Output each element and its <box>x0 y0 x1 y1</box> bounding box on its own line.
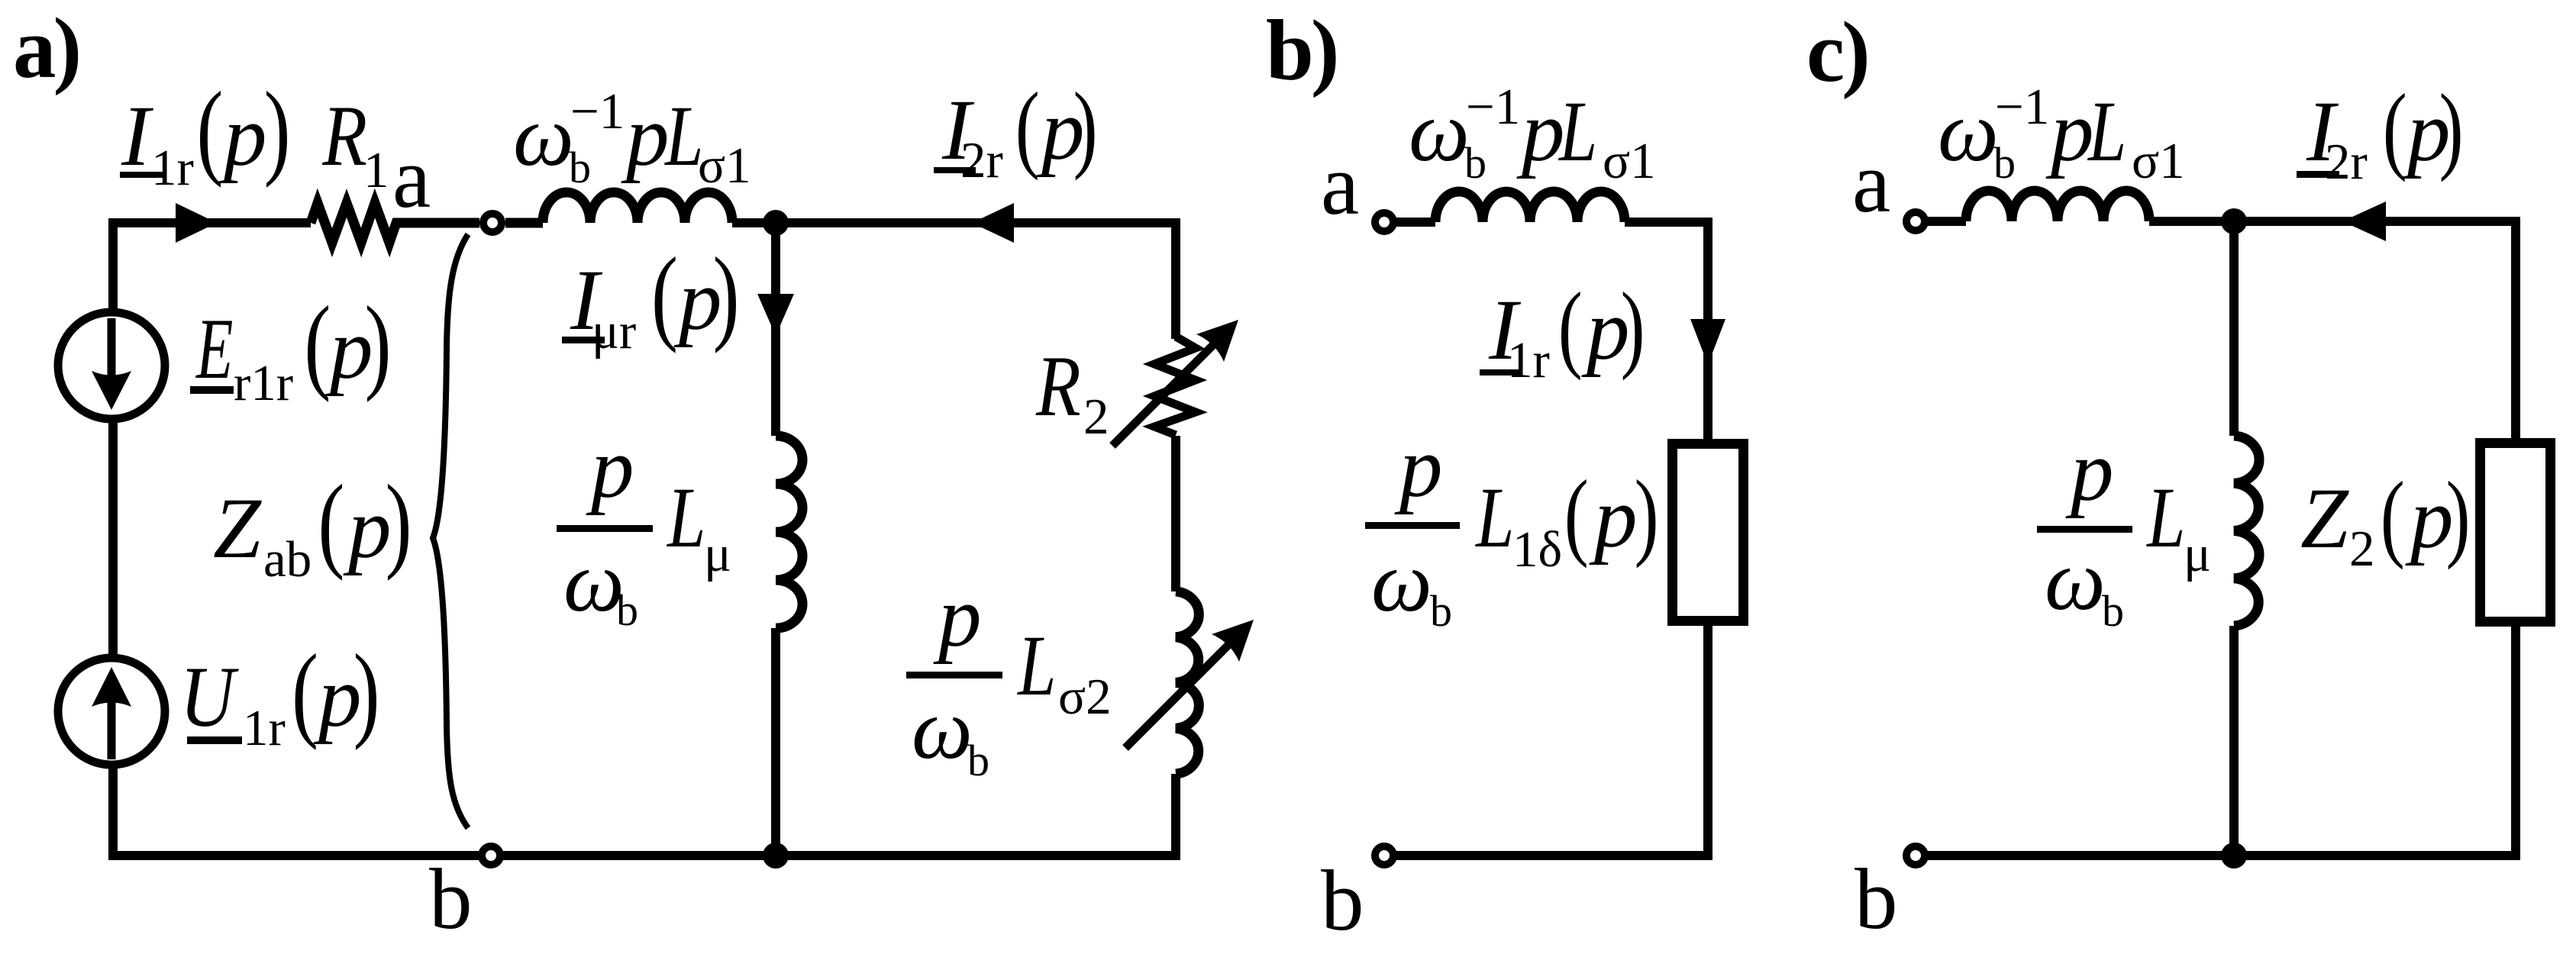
svg-text:): ) <box>353 633 380 751</box>
wire: fig c top to right corner and down <box>2149 221 2516 438</box>
junction dot (fig c top middle) <box>2221 208 2247 234</box>
resistor R1 zigzag <box>311 203 479 243</box>
svg-text:): ) <box>713 236 740 354</box>
junction dot (fig a top middle) <box>763 210 789 236</box>
svg-text:μ: μ <box>2184 526 2211 582</box>
svg-text:): ) <box>264 70 291 189</box>
svg-text:L: L <box>1474 471 1514 566</box>
wire: fig a middle branch lower <box>771 628 780 856</box>
svg-text:a: a <box>392 131 431 226</box>
svg-text:): ) <box>386 463 412 582</box>
node b terminal (fig c) <box>1906 846 1925 865</box>
current arrow I2r (fig a top-right wire, pointing left) <box>972 203 1014 243</box>
svg-text:L: L <box>1558 85 1597 180</box>
variable arrow through Lσ2 <box>1125 639 1235 748</box>
svg-text:1r: 1r <box>151 140 194 196</box>
svg-text:b: b <box>616 585 638 635</box>
svg-text:Z: Z <box>2300 471 2349 566</box>
svg-text:2r: 2r <box>2325 134 2368 190</box>
svg-text:1: 1 <box>363 142 389 198</box>
node a terminal (fig b) <box>1375 213 1393 231</box>
svg-text:ω: ω <box>912 682 973 777</box>
svg-text:b): b) <box>1266 3 1336 98</box>
svg-text:E: E <box>195 301 233 397</box>
svg-text:(: ( <box>2381 462 2405 570</box>
svg-text:2r: 2r <box>960 132 1003 189</box>
svg-text:(: ( <box>651 236 678 354</box>
current arrow Iμr (fig a middle branch, pointing down) <box>757 294 794 336</box>
svg-text:(: ( <box>1564 461 1589 569</box>
wire: fig a right branch bottom <box>1171 774 1180 856</box>
node b terminal (fig a, open circle) <box>482 846 500 865</box>
svg-text:p: p <box>1589 470 1638 566</box>
svg-text:r1r: r1r <box>234 355 293 411</box>
svg-text:(: ( <box>2383 75 2407 182</box>
svg-text:−1: −1 <box>570 83 625 140</box>
impedance box p/ωb L1δ(p) (fig b) <box>1673 444 1744 621</box>
inductor Lμ (fig a middle branch) <box>776 436 802 628</box>
wire: fig a bottom <box>108 851 1180 860</box>
variable arrow through R2 <box>1112 337 1222 446</box>
svg-text:b: b <box>429 852 473 947</box>
svg-text:1r: 1r <box>1507 332 1550 388</box>
wire: fig a top-right to corner <box>732 223 1176 339</box>
svg-text:): ) <box>2439 75 2464 182</box>
svg-text:c): c) <box>1806 5 1867 100</box>
svg-text:a): a) <box>13 1 79 96</box>
svg-text:μ: μ <box>704 526 731 582</box>
current arrow I2r (fig c, pointing left) <box>2342 201 2386 241</box>
svg-text:L: L <box>2087 85 2126 180</box>
node a terminal (fig c) <box>1906 212 1925 230</box>
svg-text:p: p <box>343 481 392 576</box>
svg-text:σ1: σ1 <box>2132 133 2185 189</box>
wire: fig a left vertical (behind sources) <box>108 218 118 860</box>
wire: fig a top-left segment <box>108 218 311 227</box>
wire: fig b from node a <box>1396 218 1435 227</box>
svg-text:(: ( <box>318 463 344 582</box>
svg-text:I: I <box>121 89 154 184</box>
svg-text:σ2: σ2 <box>1058 669 1112 725</box>
svg-text:ω: ω <box>1409 84 1470 179</box>
svg-text:a: a <box>1321 137 1359 233</box>
svg-text:b: b <box>2102 586 2124 636</box>
svg-text:): ) <box>365 285 392 403</box>
svg-text:1r: 1r <box>243 700 286 756</box>
svg-text:(: ( <box>292 633 318 751</box>
inductor Lσ1 (fig b) <box>1435 192 1625 222</box>
svg-text:R: R <box>321 89 367 184</box>
svg-text:ω: ω <box>513 89 574 184</box>
svg-text:L: L <box>1016 619 1056 714</box>
wire: fig c bottom <box>1928 851 2520 860</box>
inductor Lμ (fig c) <box>2234 436 2259 626</box>
svg-text:σ1: σ1 <box>1603 133 1656 189</box>
svg-text:L: L <box>2145 471 2185 566</box>
junction dot (fig a bottom middle) <box>763 843 789 869</box>
wire: fig b below box to bottom and back to node b <box>1396 626 1708 856</box>
svg-text:R: R <box>1035 339 1081 434</box>
wire: fig a middle branch upper <box>771 223 780 436</box>
wire: fig c right branch below box <box>2511 627 2520 860</box>
resistor R2 zigzag (variable) <box>1154 337 1196 435</box>
svg-text:b: b <box>1993 138 2016 188</box>
svg-text:−1: −1 <box>1466 79 1520 135</box>
svg-text:(: ( <box>196 70 223 189</box>
svg-text:): ) <box>2446 462 2471 570</box>
svg-text:(: ( <box>1015 73 1040 181</box>
svg-text:L: L <box>666 471 705 566</box>
node b terminal (fig b) <box>1375 846 1393 865</box>
wire: fig b top right and down to box <box>1625 222 1708 439</box>
current arrow I1r (fig a top-left wire) <box>176 203 217 243</box>
svg-text:p: p <box>2065 424 2114 519</box>
current arrow I1r (fig b, pointing down) <box>1690 319 1725 365</box>
svg-text:p: p <box>218 89 267 184</box>
svg-text:p: p <box>621 89 670 184</box>
wire: fig a right branch between R2 and Lσ2 <box>1171 436 1180 591</box>
voltage source U_1r (fig a, arrow up) <box>58 658 165 765</box>
svg-text:U: U <box>180 649 240 745</box>
svg-text:p: p <box>1516 84 1565 179</box>
wire: fig c middle branch lower <box>2229 626 2239 856</box>
junction dot (fig c bottom middle) <box>2221 843 2247 869</box>
svg-text:b: b <box>1321 853 1364 949</box>
node a terminal (fig a, open circle) <box>483 214 502 232</box>
svg-text:b: b <box>1855 852 1898 947</box>
svg-text:−1: −1 <box>1995 79 2049 135</box>
svg-text:b: b <box>1464 138 1487 188</box>
svg-text:μr: μr <box>592 303 636 359</box>
svg-text:a: a <box>1852 135 1890 230</box>
wire: fig c middle branch upper <box>2229 221 2239 436</box>
svg-text:p: p <box>2045 84 2094 179</box>
svg-text:ω: ω <box>563 534 625 630</box>
svg-text:): ) <box>1621 273 1645 381</box>
svg-text:p: p <box>1394 420 1443 515</box>
svg-text:b: b <box>1430 586 1452 636</box>
svg-text:Z: Z <box>213 481 262 576</box>
svg-text:ω: ω <box>1371 534 1432 630</box>
svg-text:p: p <box>586 421 634 516</box>
inductor Lσ1 (fig c) <box>1966 191 2149 221</box>
svg-text:p: p <box>933 569 982 665</box>
svg-text:1δ: 1δ <box>1512 521 1562 578</box>
svg-text:b: b <box>967 736 989 785</box>
svg-text:σ1: σ1 <box>698 137 751 194</box>
inductor Lσ2 (variable, fig a right branch) <box>1176 591 1199 774</box>
svg-text:2: 2 <box>1083 388 1109 445</box>
brace for Zab(p) <box>433 234 468 828</box>
svg-text:ω: ω <box>1938 84 1999 179</box>
current source E_r1r (fig a, arrow down) <box>58 312 165 419</box>
svg-text:2: 2 <box>2349 521 2375 577</box>
wire: fig c from node a <box>1928 217 1966 226</box>
svg-text:): ) <box>1073 73 1098 181</box>
svg-text:): ) <box>1635 461 1659 569</box>
inductor Lσ1 (fig a) <box>505 192 732 223</box>
svg-text:(: ( <box>1558 273 1583 381</box>
svg-text:ω: ω <box>2045 533 2106 628</box>
svg-text:(: ( <box>304 285 331 403</box>
svg-text:ab: ab <box>263 531 312 588</box>
impedance box Z2(p) (fig c) <box>2481 443 2551 622</box>
svg-text:b: b <box>569 143 591 192</box>
